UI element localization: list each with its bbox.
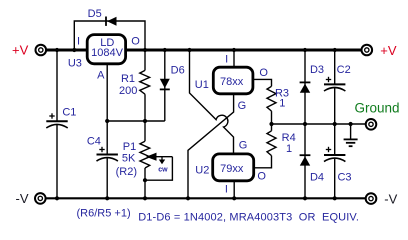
svg-text:D6: D6 <box>171 64 185 76</box>
svg-text:-V: -V <box>16 191 29 206</box>
svg-text:G: G <box>239 140 248 152</box>
terminal Ground output <box>366 119 377 130</box>
svg-text:I: I <box>225 183 228 195</box>
junction top rail D3 <box>303 48 307 52</box>
svg-text:1: 1 <box>286 143 292 155</box>
terminal -V input (left) <box>35 193 46 204</box>
svg-text:R1: R1 <box>121 73 135 85</box>
junction ADJ bus R1/P1 <box>143 119 147 123</box>
wire bottom rail <box>45 197 366 199</box>
diode D4 <box>300 124 311 198</box>
svg-text:D1-D6 = 1N4002, MRA4003T3 OR: D1-D6 = 1N4002, MRA4003T3 OR EQUIV. <box>138 212 359 224</box>
junction top rail cross wire <box>187 48 191 52</box>
regulator U2 79xx <box>213 154 254 198</box>
svg-text:(R6/R5 +1): (R6/R5 +1) <box>77 208 131 220</box>
diode D3 <box>300 50 311 124</box>
wire top rail left segment <box>46 49 88 52</box>
svg-text:1084V: 1084V <box>91 47 123 59</box>
junction bottom rail U2 input <box>232 196 236 200</box>
potentiometer P1 <box>140 121 150 198</box>
svg-text:O: O <box>259 67 268 79</box>
resistor R4 <box>254 124 276 168</box>
svg-text:D3: D3 <box>310 64 324 76</box>
svg-text:I: I <box>225 53 228 65</box>
junction ground bus C2/C3 <box>333 122 337 126</box>
svg-text:D4: D4 <box>310 172 324 184</box>
wire ADJ bus <box>107 120 165 122</box>
svg-text:U1: U1 <box>195 79 209 91</box>
svg-text:A: A <box>97 70 105 82</box>
junction top rail C2 <box>333 48 337 52</box>
junction bottom rail C1 <box>55 196 59 200</box>
capacitor C2 <box>324 50 345 124</box>
resistor R1 <box>140 50 150 121</box>
junction top rail D5 left <box>72 48 76 52</box>
wire top rail main segment <box>125 49 363 52</box>
svg-text:-V: -V <box>384 192 397 207</box>
regulator U3 LD1084V <box>87 35 125 64</box>
svg-text:+V: +V <box>380 43 397 58</box>
svg-text:U3: U3 <box>68 57 82 69</box>
diode D6 <box>160 50 170 121</box>
svg-text:I: I <box>77 35 80 47</box>
junction top rail U1 input <box>232 48 236 52</box>
wire D5 bypass loop <box>74 21 145 49</box>
svg-text:1: 1 <box>279 98 285 110</box>
junction bottom rail P1 <box>143 196 147 200</box>
wire output rail to U2 G (with hop) <box>190 50 234 153</box>
wire wiper loop to P1 bottom <box>145 157 172 181</box>
wire ground bus <box>272 123 367 125</box>
junction ground bus earth <box>349 122 353 126</box>
svg-text:U2: U2 <box>195 165 209 177</box>
svg-text:78xx: 78xx <box>220 76 244 88</box>
junction bottom rail D4 <box>303 196 307 200</box>
capacitor C3 <box>324 124 345 198</box>
svg-text:P1: P1 <box>123 141 136 153</box>
svg-text:5K: 5K <box>122 153 136 165</box>
junction bottom rail C4 <box>105 196 109 200</box>
junction top rail D6 <box>163 48 167 52</box>
svg-text:C3: C3 <box>337 172 351 184</box>
capacitor C1 <box>46 50 67 198</box>
junction bottom rail C3 <box>333 196 337 200</box>
junction P1 bottom <box>143 178 147 182</box>
cw direction arrow <box>159 157 165 165</box>
wiper arrow P1 <box>146 153 172 161</box>
svg-text:O: O <box>257 171 266 183</box>
svg-text:G: G <box>238 100 247 112</box>
junction ground bus D3/D4 <box>303 122 307 126</box>
junction ADJ bus C4 <box>105 119 109 123</box>
svg-text:D5: D5 <box>88 8 102 20</box>
capacitor C4 <box>97 121 118 198</box>
terminal -V output (right) <box>366 193 377 204</box>
junction top rail C1 <box>55 48 59 52</box>
wire U1 O to R3 <box>253 79 272 86</box>
wire U1 G to bottom rail <box>188 95 234 198</box>
diode D5 <box>106 17 117 26</box>
junction bottom rail cross wire <box>186 196 190 200</box>
svg-text:cw: cw <box>158 166 168 173</box>
svg-text:(R2): (R2) <box>116 166 137 178</box>
junction top rail R1/D5 <box>143 48 147 52</box>
regulator U1 78xx <box>213 50 253 94</box>
svg-text:O: O <box>131 35 140 47</box>
resistor R3 <box>267 86 276 111</box>
ground symbol <box>344 124 358 146</box>
svg-text:79xx: 79xx <box>220 163 244 175</box>
wire R3 to junction <box>271 111 273 124</box>
terminal +V input (left) <box>36 45 47 56</box>
svg-text:+V: +V <box>12 42 29 57</box>
svg-text:C1: C1 <box>62 107 76 119</box>
svg-text:200: 200 <box>119 85 137 97</box>
svg-text:C4: C4 <box>87 136 101 148</box>
svg-text:C2: C2 <box>337 64 351 76</box>
svg-text:Ground: Ground <box>355 100 400 115</box>
terminal +V output (right) <box>362 45 373 56</box>
junction ground bus R3/R4 <box>269 122 273 126</box>
wire ADJ pin of U3 <box>106 64 108 121</box>
